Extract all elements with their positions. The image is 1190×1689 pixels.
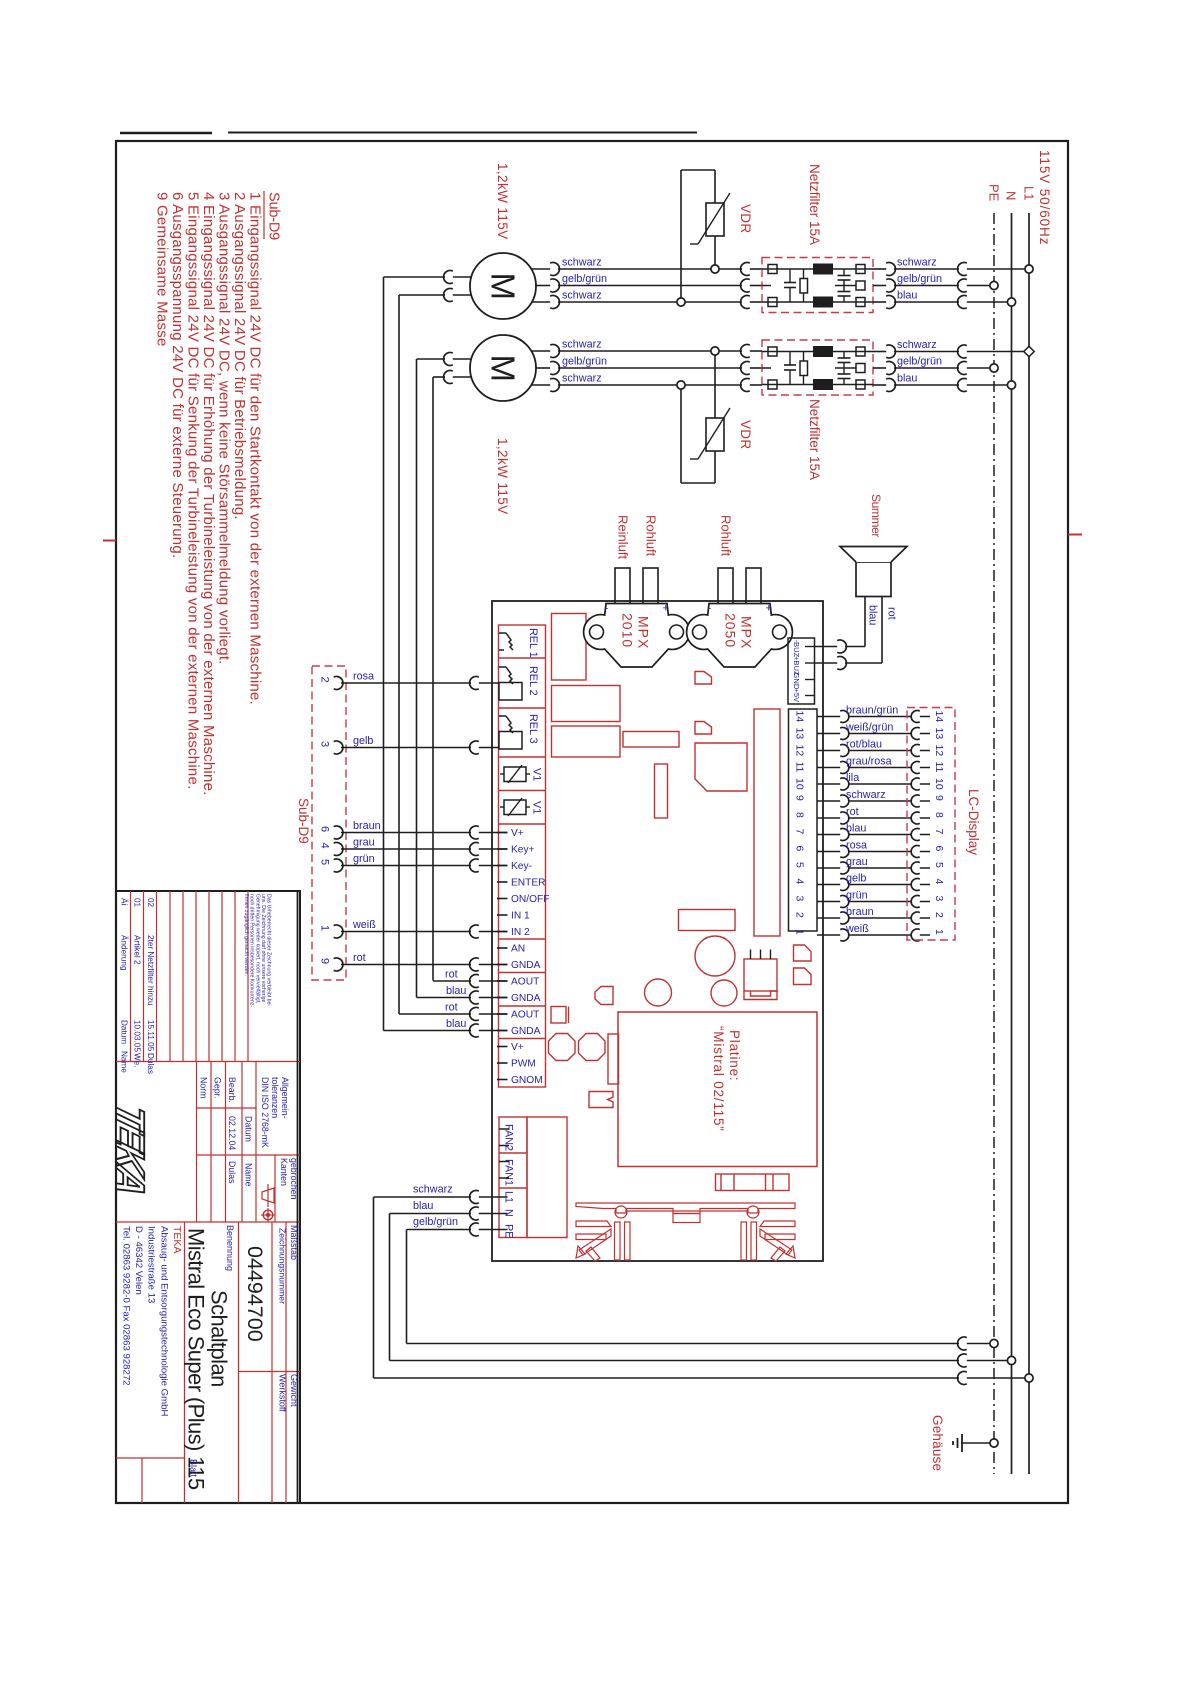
pin ON/OFF tick — [497, 898, 508, 900]
wire LCD pin 11 grau/rosa — [817, 767, 930, 769]
svg-text:1,2kW 115V: 1,2kW 115V — [495, 438, 510, 515]
svg-text:AN: AN — [511, 944, 525, 955]
PCB LCD pin header — [789, 709, 818, 931]
label grau/rosa LCD wire — [846, 755, 892, 767]
pin AOUT tick — [497, 980, 508, 982]
LCD pin 1 number (display side) — [933, 929, 945, 935]
legend Sub-D9 pin description — [154, 191, 282, 796]
LCD pin 5 number (PCB side) — [794, 862, 806, 868]
LCD pin 2 number (display side) — [933, 912, 945, 918]
connector arc out1b — [886, 279, 895, 292]
svg-text:LC-Display: LC-Display — [966, 789, 981, 855]
svg-text:04494700: 04494700 — [243, 1246, 267, 1342]
label braun — [353, 820, 381, 832]
wire Sub-D9 pin4 to Key+ — [341, 848, 508, 850]
connector arc LCD 13 left — [840, 728, 849, 740]
connector arc M2 control - — [444, 371, 453, 384]
pin label GNDA — [511, 960, 541, 971]
wire LCD pin 4 gelb — [817, 884, 930, 886]
power rail PE (dash-dot) — [993, 213, 995, 1474]
svg-text:5: 5 — [933, 862, 945, 868]
Sub-D9 pin 6 — [319, 826, 343, 839]
svg-text:2 Ausgangssignal 24V DC für B: 2 Ausgangssignal 24V DC für Betriebsmeld… — [231, 192, 248, 520]
svg-text:+: + — [766, 603, 772, 615]
PCB small pentagon b — [695, 722, 712, 735]
relay contact REL1 — [499, 633, 513, 650]
label REL 2 — [527, 666, 539, 696]
pin label AOUT — [511, 1010, 539, 1021]
pin label V+ — [511, 1042, 524, 1053]
PCB circle component small b — [711, 980, 737, 1006]
label grün — [353, 853, 375, 865]
connector arc PCB side pin 1 — [470, 925, 479, 938]
svg-text:1,2kW 115V: 1,2kW 115V — [495, 163, 510, 240]
svg-text:REL 2: REL 2 — [527, 666, 539, 696]
pin label AOUT — [511, 977, 539, 988]
svg-text:Äi: Äi — [120, 898, 130, 905]
label gelb — [353, 735, 373, 747]
label 1,2kW 115V motor M1 — [495, 163, 510, 240]
label grau — [353, 837, 375, 849]
LCD pin 3 number (display side) — [933, 896, 945, 902]
PCB D-shape component — [595, 987, 613, 1005]
svg-text:115V 50/60Hz: 115V 50/60Hz — [1037, 150, 1052, 245]
svg-text:Gepr.: Gepr. — [213, 1077, 223, 1099]
wire gelb/gruen to PE bottom — [407, 1343, 995, 1345]
label blau buzzer wire — [867, 605, 879, 625]
label Zeichnungsnummer — [278, 1228, 288, 1304]
svg-text:Platine:: Platine: — [727, 1030, 742, 1081]
svg-text:“Mistral 02/115”: “Mistral 02/115” — [711, 1026, 726, 1132]
connector arc LCD 5 left — [840, 862, 849, 874]
frame centering tick right — [1068, 534, 1082, 536]
svg-text:MPX: MPX — [636, 616, 652, 649]
Netzfilter1 Y-capacitor bottom — [838, 286, 851, 303]
wire M1 gelb/gruen — [536, 285, 762, 287]
label FAN1 — [503, 1159, 515, 1186]
wire filter2 out blau to N — [873, 384, 1012, 386]
svg-text:VDR: VDR — [738, 420, 753, 449]
junction N bottom — [1007, 1356, 1015, 1364]
label VDR1 — [738, 204, 753, 233]
label Rohluft port — [644, 515, 659, 557]
label Benennung — [225, 1225, 235, 1271]
svg-text:14: 14 — [794, 711, 806, 723]
LCD pin 12 number (PCB side) — [794, 745, 806, 757]
pin Key- tick — [497, 865, 508, 867]
label rot/blau LCD wire — [846, 738, 882, 750]
connector arc LCD 12 left — [840, 745, 849, 757]
surface symbol — [261, 1184, 275, 1222]
svg-text:9: 9 — [794, 795, 806, 801]
svg-text:gelb/grün: gelb/grün — [413, 1216, 458, 1228]
relay contact REL2 — [499, 667, 522, 700]
svg-text:Artikel 2: Artikel 2 — [133, 935, 142, 965]
svg-text:1: 1 — [794, 929, 806, 935]
line filter Netzfilter2 box — [762, 340, 873, 395]
connector arc LCD 4 left — [840, 879, 849, 891]
pin PWM tick — [497, 1062, 508, 1064]
svg-text:7: 7 — [794, 829, 806, 835]
svg-text:blau: blau — [897, 373, 917, 385]
wire LCD pin 9 schwarz — [817, 800, 930, 802]
svg-text:6: 6 — [319, 826, 331, 832]
LCD pin 3 number (PCB side) — [794, 896, 806, 902]
motor M1 — [470, 253, 536, 319]
connector arc LCD 3 right — [911, 896, 920, 908]
pin +5V tick — [805, 695, 814, 697]
svg-text:V1: V1 — [531, 801, 543, 814]
Netzfilter2 output terminal squares — [856, 347, 865, 389]
svg-text:2: 2 — [794, 912, 806, 918]
label gelb/gruen PE wire — [413, 1216, 458, 1228]
LCD pin 13 number (PCB side) — [794, 728, 806, 740]
wire AOUT2 rot — [399, 1013, 508, 1015]
svg-text:+: + — [663, 603, 669, 615]
svg-text:L1: L1 — [1022, 186, 1037, 200]
svg-text:1: 1 — [933, 929, 945, 935]
wire M1 control GNDA — [399, 295, 472, 1014]
pin GND tick — [805, 679, 814, 681]
wire Sub-D9 pin6 to V+ — [341, 832, 508, 834]
FAN terminal strip — [499, 1117, 567, 1238]
pin GNDA tick — [497, 964, 508, 966]
wire M2 control AOUT — [417, 359, 473, 998]
label Masstab — [289, 1225, 299, 1260]
connector arc M2 gelb/gruen — [550, 362, 559, 375]
svg-text:6: 6 — [794, 846, 806, 852]
connector arc out1a — [886, 263, 895, 276]
tolerance note — [256, 1062, 290, 1223]
svg-text:Datum: Datum — [244, 1116, 254, 1142]
label Netzfilter 15A (filter 1) — [807, 164, 822, 245]
pin AOUT tick — [497, 1013, 508, 1015]
svg-text:blau: blau — [897, 290, 917, 302]
label braun/grün LCD wire — [846, 704, 898, 716]
connector arc rail1b — [958, 279, 967, 292]
svg-text:REL 1: REL 1 — [527, 628, 539, 658]
pin IN 2 tick — [497, 931, 508, 933]
pin Key+ tick — [497, 848, 508, 850]
svg-text:4: 4 — [933, 879, 945, 885]
svg-text:rot: rot — [445, 1002, 458, 1014]
label rot buzzer wire — [886, 607, 898, 620]
svg-text:grün: grün — [846, 889, 868, 901]
connector arc LCD 7 right — [911, 829, 920, 841]
PCB flag-notch component — [589, 1092, 613, 1108]
label grau LCD wire — [846, 856, 868, 868]
svg-text:1: 1 — [319, 925, 331, 931]
svg-text:+5V: +5V — [792, 689, 801, 704]
svg-text:2ter Netzfilter hinzu: 2ter Netzfilter hinzu — [146, 935, 155, 1006]
svg-text:2010: 2010 — [620, 613, 636, 648]
Sub-D9 pin 3 — [319, 741, 343, 754]
connector arc PE terminal — [470, 1223, 479, 1236]
label Gewicht — [289, 1374, 299, 1407]
LCD pin 1 number (PCB side) — [794, 929, 806, 935]
LCD pin 14 number (PCB side) — [794, 711, 806, 723]
wire GNDA3 blau — [384, 1030, 508, 1032]
svg-text:9 Gemeinsame Masse: 9 Gemeinsame Masse — [154, 192, 171, 347]
svg-text:braun/grün: braun/grün — [846, 704, 898, 716]
svg-text:Gewicht: Gewicht — [289, 1374, 299, 1407]
connector arc filter1 in schwarz — [741, 263, 750, 276]
pin label AN — [511, 944, 525, 955]
pin label -BUZ — [792, 640, 801, 658]
svg-text:Sub-D9: Sub-D9 — [296, 798, 311, 844]
label blau GNDA2 — [446, 985, 466, 997]
svg-text:Netzfilter 15A: Netzfilter 15A — [807, 399, 822, 480]
LCD pin 8 number (PCB side) — [794, 812, 806, 818]
wire blau to N bottom — [390, 1360, 1012, 1362]
net label 115V 50/60Hz — [1037, 150, 1052, 245]
title block fields Bearb/Gepr/Norm — [197, 1062, 257, 1223]
svg-text:rosa: rosa — [846, 839, 867, 851]
label rosa LCD wire — [846, 839, 867, 851]
svg-text:1 Eingangssignal 24V DC für d: 1 Eingangssignal 24V DC für den Startkon… — [247, 192, 264, 705]
svg-text:GND: GND — [792, 673, 801, 690]
power module Platine Mistral 02/115 — [618, 1012, 817, 1167]
svg-text:V1: V1 — [531, 768, 543, 781]
PCB fuse component — [716, 1174, 790, 1191]
buzzer Summer — [840, 547, 907, 597]
svg-text:02: 02 — [146, 898, 155, 908]
PCB transistor with pins — [744, 950, 777, 1000]
diode V1 b — [500, 798, 530, 816]
svg-text:schwarz: schwarz — [562, 290, 602, 302]
svg-text:firmen zugänglich gemacht werd: firmen zugänglich gemacht werden. — [243, 894, 249, 976]
svg-text:IN 1: IN 1 — [511, 911, 530, 922]
LCD pin 6 number (PCB side) — [794, 846, 806, 852]
pin V+ tick — [497, 1046, 508, 1048]
pin FAN1 ticks — [499, 1162, 509, 1179]
Netzfilter2 Y-capacitor top — [838, 352, 851, 369]
connector arc +BUZ — [837, 656, 846, 669]
junction VDR2 top — [711, 347, 719, 355]
svg-text:V+: V+ — [511, 828, 524, 839]
svg-text:Schaltplan: Schaltplan — [207, 1290, 232, 1387]
svg-text:MPX: MPX — [739, 616, 755, 649]
label Blatt — [189, 1459, 199, 1478]
junction L1 group1 — [1025, 265, 1033, 273]
LCD pin 13 number (display side) — [933, 728, 945, 740]
label Netzfilter 15A (filter 2) — [807, 399, 822, 480]
connector arc rail2b — [958, 362, 967, 375]
connector arc LCD 9 left — [840, 795, 849, 807]
Netzfilter1 Y-capacitor top — [838, 269, 851, 286]
junction L1 group2 (diamond) — [1024, 346, 1034, 356]
Sub-D9 pin 1 — [319, 925, 343, 938]
PCB component block C — [552, 726, 621, 757]
svg-text:13: 13 — [794, 728, 806, 740]
svg-text:GNDA: GNDA — [511, 993, 541, 1004]
junction VDR2 bottom — [677, 381, 685, 389]
connector arc M1 gelb/gruen — [550, 279, 559, 292]
svg-text:10: 10 — [794, 778, 806, 790]
svg-text:Norm: Norm — [199, 1077, 209, 1099]
connector arc LCD 8 left — [840, 812, 849, 824]
connector arc M2 schwarz 2 — [550, 379, 559, 392]
svg-text:Name: Name — [244, 1163, 254, 1187]
svg-text:6 Ausgangsspannung 24V DC für: 6 Ausgangsspannung 24V DC für externe St… — [169, 192, 186, 558]
LCD pin 12 number (display side) — [933, 745, 945, 757]
label weiß/grün LCD wire — [845, 721, 893, 733]
svg-text:braun: braun — [846, 906, 874, 918]
svg-text:7: 7 — [933, 829, 945, 835]
label Werkstoff — [278, 1374, 288, 1412]
wire L1 terminal schwarz — [374, 1197, 508, 1378]
wire filter2 out schwarz to L1 — [873, 351, 1029, 353]
PCB LCD header red rect — [754, 709, 780, 936]
MPX 2050 port tube left — [718, 568, 733, 606]
svg-text:DIN ISO 2768-mK: DIN ISO 2768-mK — [260, 1077, 270, 1148]
svg-text:rot: rot — [353, 952, 366, 964]
Sub-D9 pin 5 — [319, 859, 343, 872]
label blau GNDA3 — [446, 1018, 466, 1030]
svg-text:blau: blau — [446, 985, 466, 997]
junction VDR1 bottom — [677, 298, 685, 306]
svg-text:01: 01 — [133, 898, 142, 908]
svg-text:M: M — [485, 355, 522, 383]
wire M1 schwarz 2 — [532, 301, 763, 303]
svg-text:Blatt: Blatt — [189, 1459, 199, 1478]
connector arc LCD 2 left — [840, 912, 849, 924]
svg-text:10.03.05: 10.03.05 — [133, 1020, 142, 1052]
svg-text:schwarz: schwarz — [562, 257, 602, 269]
svg-text:gelb/grün: gelb/grün — [562, 356, 607, 368]
wire LCD pin 5 grau — [817, 867, 930, 869]
connector arc PCB side pin 9 — [470, 958, 479, 971]
connector arc rail2a — [958, 345, 967, 358]
LCD pin 9 number (display side) — [933, 795, 945, 801]
svg-text:Datum: Datum — [120, 1020, 129, 1044]
svg-text:blau: blau — [446, 1018, 466, 1030]
pin +BUZ tick — [805, 662, 814, 664]
copyright note — [243, 894, 271, 1007]
pin AN tick — [497, 947, 508, 949]
svg-text:gelb/grün: gelb/grün — [897, 356, 942, 368]
pin label GNOM — [511, 1075, 543, 1086]
pin label GNDA — [511, 993, 541, 1004]
wire LCD pin 1 weiß — [817, 934, 930, 936]
wire schwarz to L1 bottom — [374, 1377, 1030, 1379]
pin label V+ — [511, 828, 524, 839]
wire LCD pin 7 blau — [817, 834, 930, 836]
motor M2 — [470, 335, 536, 401]
label rot AOUT2 — [445, 1002, 458, 1014]
connector arc filter2 in schwarz 2 — [741, 379, 750, 392]
label Reinluft port — [616, 515, 631, 559]
svg-text:4 Eingangssignal 24V DC für E: 4 Eingangssignal 24V DC für Erhöhung der… — [200, 192, 217, 796]
MPX 2050 type text — [723, 613, 755, 649]
svg-text:PE: PE — [503, 1224, 515, 1238]
drawing number 04494700 — [243, 1246, 267, 1342]
junction PE bottom — [990, 1339, 998, 1347]
Netzfilter1 resistor — [800, 269, 808, 302]
label schwarz — [562, 257, 602, 269]
pin label +5V — [792, 689, 801, 704]
LCD pin 5 number (display side) — [933, 862, 945, 868]
pin label Key+ — [511, 845, 535, 856]
svg-text:weiß: weiß — [352, 919, 376, 931]
LCD pin 7 number (display side) — [933, 829, 945, 835]
connector arc PCB side pin 5 — [470, 859, 479, 872]
label 1,2kW 115V motor M2 — [495, 438, 510, 515]
power rail N — [1011, 213, 1013, 1474]
svg-text:PE: PE — [987, 184, 1002, 202]
label blau out1 — [897, 290, 917, 302]
connector arc N terminal — [470, 1207, 479, 1220]
svg-text:6: 6 — [933, 846, 945, 852]
svg-text:Reinluft: Reinluft — [616, 515, 631, 559]
svg-text:14: 14 — [933, 711, 945, 723]
PCB big outline component — [695, 743, 747, 791]
connector arc out1c — [886, 296, 895, 309]
svg-text:2: 2 — [319, 677, 331, 683]
LCD pin 8 number (display side) — [933, 812, 945, 818]
line filter Netzfilter1 box — [762, 258, 873, 313]
svg-text:5: 5 — [319, 859, 331, 865]
pin label PWM — [511, 1059, 536, 1070]
LCD pin 9 number (PCB side) — [794, 795, 806, 801]
connector arc PCB side pin 3 — [470, 741, 479, 754]
diode V1 a — [500, 765, 530, 783]
connector arc filter2 in schwarz — [741, 345, 750, 358]
PCB octagon b — [579, 1034, 606, 1061]
label gelb/gruen M2 — [562, 356, 607, 368]
LCD pin 11 number (display side) — [933, 762, 945, 773]
wire M2 gelb/gruen — [536, 367, 762, 369]
title block outline — [116, 891, 300, 1503]
MPX 2010 plus mark — [663, 603, 669, 615]
PCB circle component small — [645, 979, 672, 1006]
PCB octagon a — [549, 1034, 576, 1061]
label schwarz out1 — [897, 257, 937, 269]
label braun LCD wire — [846, 906, 874, 918]
svg-text:rot/blau: rot/blau — [846, 738, 882, 750]
connector arc filter2 in gelb/gruen — [741, 362, 750, 375]
label L1 terminal — [503, 1191, 515, 1203]
wire GNDA2 blau — [417, 997, 508, 999]
label REL 1 — [527, 628, 539, 658]
connector arc LCD 1 left — [840, 929, 849, 941]
MPX 2010 minus mark — [605, 603, 609, 615]
LCD pin 14 number (display side) — [933, 711, 945, 723]
Kanten gebrochen cell — [256, 1155, 300, 1222]
Netzfilter2 input terminal squares — [768, 347, 777, 389]
svg-text:Rohluft: Rohluft — [719, 515, 734, 557]
border frame — [116, 141, 1068, 1503]
MPX 2050 plus mark — [766, 603, 772, 615]
connector arc -BUZ — [837, 640, 846, 653]
label blau N wire — [413, 1200, 433, 1212]
title Schaltplan — [207, 1290, 232, 1387]
net label N — [1004, 191, 1019, 200]
pin GNOM tick — [497, 1079, 508, 1081]
chassis ground Gehaeuse — [953, 1434, 994, 1452]
label gelb/gruen out2 — [897, 356, 942, 368]
wire LCD pin 10 lila — [817, 783, 930, 785]
pin label +BUZ — [792, 656, 801, 676]
wire PE terminal gelb/gruen — [407, 1230, 508, 1344]
pin GNDA tick — [497, 1030, 508, 1032]
MPX 2010 port tube right — [643, 568, 658, 606]
label N terminal — [503, 1209, 515, 1217]
svg-text:Dulas: Dulas — [227, 1161, 237, 1184]
company address TEKA — [121, 1226, 184, 1416]
wire M2 schwarz phase — [532, 350, 763, 352]
svg-text:gelb/grün: gelb/grün — [562, 273, 607, 285]
